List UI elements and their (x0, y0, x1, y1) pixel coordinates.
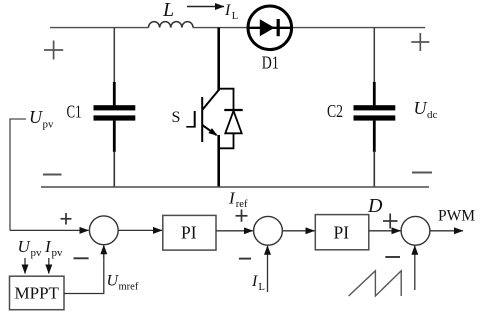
current arrow IL (187, 6, 224, 8)
plus sign at summer 1 (61, 213, 72, 225)
plus sign at summer 2 (236, 210, 248, 222)
wire top rail left segment (50, 27, 149, 29)
svg-text:PI: PI (334, 223, 350, 243)
svg-text:PI: PI (181, 223, 197, 243)
wire arrow IL into summer 2 (267, 246, 269, 292)
block PI 1 (163, 215, 216, 250)
plus sign right (411, 33, 429, 51)
diode D1 (248, 6, 292, 50)
wire Umref from MPPT to summer 1 (64, 254, 104, 294)
svg-text:D: D (367, 195, 383, 217)
sawtooth carrier (349, 271, 402, 296)
svg-text:L: L (162, 0, 174, 21)
svg-text:I: I (228, 189, 236, 208)
wire summer 2 to PI 2 (282, 230, 314, 232)
node summing junction 2 (254, 216, 283, 245)
wire arrow Upv into MPPT (24, 258, 26, 274)
plus sign at summer 3 (383, 214, 398, 229)
wire arrow carrier into summer 3 (414, 246, 416, 290)
minus sign right (412, 172, 432, 174)
node Upv terminal (10, 119, 26, 230)
minus sign at summer 1 (74, 257, 89, 259)
plus sign left (44, 41, 63, 60)
wire Upv feedback into summer 1 (10, 229, 89, 231)
svg-text:I: I (224, 2, 231, 19)
wire summer 1 to PI 1 (118, 229, 162, 231)
transistor S (IGBT) (186, 28, 218, 187)
block MPPT (10, 276, 65, 310)
diode antiparallel with S (219, 89, 243, 149)
block PI 2 (315, 215, 369, 250)
svg-text:PWM: PWM (438, 208, 475, 225)
minus sign at summer 2 (239, 258, 251, 260)
svg-text:dc: dc (427, 109, 438, 121)
capacitor C2 (354, 28, 396, 187)
node summing junction 3 (401, 216, 430, 245)
svg-text:ref: ref (236, 199, 248, 210)
wire arrow Ipv into MPPT (48, 258, 50, 274)
svg-text:S: S (172, 109, 181, 126)
capacitor C1 (94, 28, 136, 187)
minus sign at summer 3 (385, 256, 400, 258)
svg-text:pv: pv (43, 119, 55, 131)
wire top rail mid segment (193, 27, 247, 29)
svg-text:pv: pv (31, 247, 43, 259)
wire top rail right segment (293, 27, 425, 29)
svg-text:MPPT: MPPT (15, 284, 60, 303)
inductor L (149, 22, 194, 28)
svg-text:U: U (18, 237, 32, 256)
svg-text:C2: C2 (327, 101, 343, 121)
svg-text:mref: mref (119, 281, 139, 292)
svg-text:I: I (251, 273, 258, 290)
svg-text:D1: D1 (262, 53, 279, 73)
svg-text:U: U (414, 98, 428, 118)
node summing junction 1 (89, 216, 118, 245)
wire PI 2 to summer 3 (369, 230, 401, 232)
svg-text:C1: C1 (67, 101, 82, 121)
svg-text:L: L (259, 282, 265, 293)
wire bottom rail (41, 186, 429, 188)
svg-text:U: U (29, 107, 43, 127)
minus sign left (43, 174, 62, 176)
svg-text:L: L (232, 11, 238, 22)
wire PWM output (430, 230, 463, 232)
svg-text:pv: pv (52, 247, 64, 259)
wire PI 1 to summer 2 (216, 230, 253, 232)
